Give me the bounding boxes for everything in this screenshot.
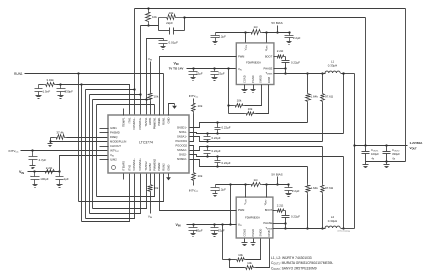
- label 0.22uF: [212, 136, 221, 140]
- wire SNS2- rail: [190, 155, 344, 158]
- svg-text:1.64k: 1.64k: [311, 95, 319, 99]
- svg-text:0.22µF: 0.22µF: [291, 60, 300, 64]
- ground 22uF bottom a: [191, 234, 196, 237]
- svg-text:PGOOD2: PGOOD2: [176, 144, 188, 148]
- labels bottom pins: [122, 158, 171, 171]
- svg-text:LTC3774: LTC3774: [139, 141, 153, 145]
- inductor L1: [325, 71, 340, 73]
- resistor 10k divider top: [146, 7, 151, 26]
- svg-text:10k: 10k: [198, 104, 203, 108]
- label 330pF: [65, 90, 74, 94]
- svg-text:10k: 10k: [237, 99, 242, 103]
- capacitor 1.5nF ITH: [35, 85, 44, 96]
- wire GND sense top rail: [135, 8, 406, 10]
- wire L2 out: [341, 228, 355, 230]
- svg-text:ILIM1: ILIM1: [110, 126, 117, 130]
- svg-text:7V TO 14V: 7V TO 14V: [169, 67, 184, 71]
- wire 5V BIAS rail bottom: [216, 183, 289, 185]
- resistor 97.6ohm ch1: [321, 72, 325, 141]
- ground PGND bottom: [251, 239, 256, 246]
- label 0.22uF: [212, 149, 221, 153]
- svg-text:CGND: CGND: [242, 229, 246, 237]
- wire loop VOSNS1+: [90, 93, 142, 213]
- label 0.22uF: [291, 215, 300, 219]
- label 3.01k: [46, 78, 54, 82]
- capacitor 22uF input b: [211, 69, 219, 78]
- svg-text:2.2Ω: 2.2Ω: [46, 166, 53, 170]
- resistor 1ohm top: [250, 30, 263, 35]
- svg-text:GND: GND: [167, 117, 171, 123]
- wire RUN loop bottom: [79, 174, 164, 202]
- ground 1.5nF: [36, 96, 42, 99]
- capacitor 2.2uF VCIN bottom: [211, 185, 220, 194]
- wire L1/L2 to VOUT: [354, 74, 356, 229]
- svg-text:10k: 10k: [154, 186, 159, 190]
- svg-text:0.33µH: 0.33µH: [328, 219, 337, 223]
- wire SW1: [286, 73, 326, 75]
- svg-text:SNSD2+: SNSD2+: [177, 157, 188, 161]
- ground PGND top: [251, 85, 256, 93]
- op-amp U2 FDMF6820A body: [236, 43, 274, 85]
- wire ITEMP1 stub: [123, 109, 125, 116]
- svg-text:0.22µF: 0.22µF: [222, 126, 231, 130]
- svg-text:HIZB2: HIZB2: [148, 163, 152, 171]
- wire SNSA2+ rail: [190, 145, 323, 150]
- ground 22uF a: [191, 78, 196, 81]
- capacitor 22uF input a: [189, 69, 198, 78]
- label INTVCC: [9, 149, 19, 154]
- wire SNSA1+ rail: [190, 137, 323, 143]
- capacitor 100uF VIN: [30, 172, 39, 185]
- label 0.22uF: [222, 161, 231, 165]
- capacitor 2.2uF 5VBIAS top: [285, 31, 294, 41]
- label L1 0.33uH: [328, 60, 337, 68]
- wire PHASE bottom: [273, 222, 287, 224]
- wire SMOD/DISB riser bottom: [222, 225, 224, 260]
- wire VIN rail bottom: [187, 223, 237, 225]
- svg-text:BOOT: BOOT: [265, 54, 273, 58]
- wire ITH loop left leg: [80, 83, 82, 221]
- svg-text:SNS2–: SNS2–: [179, 153, 188, 157]
- wire VOSNS1- drop (x=134): [134, 9, 136, 116]
- label 0.22uF: [291, 60, 300, 64]
- label 97.6ohm: [325, 186, 334, 190]
- resistor 10k feedback: [159, 15, 185, 20]
- resistor 2.2ohm VIN: [41, 170, 60, 174]
- svg-text:10k: 10k: [152, 15, 157, 19]
- label 5V BIAS bottom: [271, 173, 282, 177]
- resistor 10k SMOD2: [223, 258, 246, 262]
- labels left pins: [110, 126, 126, 162]
- wire 5V BIAS rail top: [216, 31, 290, 33]
- svg-text:5V BIAS: 5V BIAS: [271, 173, 282, 177]
- svg-text:COUT2: SANYO 2R5TPE330M9: COUT2: SANYO 2R5TPE330M9: [271, 266, 317, 271]
- svg-text:RUN1: RUN1: [162, 117, 166, 125]
- wire GND sense right drop: [405, 9, 407, 162]
- svg-text:2.2Ω: 2.2Ω: [277, 203, 284, 207]
- label 5V BIAS top: [271, 21, 282, 25]
- svg-text:0.01µF: 0.01µF: [169, 41, 179, 45]
- svg-text:DISB: DISB: [267, 77, 271, 83]
- capacitor 0.22uF BOOT top: [282, 60, 290, 69]
- svg-text:CLKOUT: CLKOUT: [110, 144, 121, 148]
- wire SNSD1+ rail: [190, 121, 308, 127]
- wire TDSNS top: [274, 69, 287, 75]
- wire feedback rail drop x=365.7: [365, 18, 367, 146]
- wire GND top pin: [169, 104, 175, 116]
- wire MODE gnd stub: [50, 142, 52, 144]
- wire INTVCC: [21, 149, 109, 151]
- label LTC3774: [139, 141, 153, 145]
- wire RUN1: [25, 72, 164, 115]
- wire ITH1 hline: [82, 85, 130, 116]
- wire divider node: [141, 25, 159, 27]
- label RUN1: [14, 72, 23, 76]
- label VIN small (HIZB2): [148, 215, 153, 220]
- capacitor 0.01uF soft-start: [159, 39, 168, 47]
- svg-text:2.2µF: 2.2µF: [292, 189, 300, 193]
- label 22uF: [196, 229, 203, 233]
- label VIN bold: [19, 170, 24, 175]
- ground 2.2uF VCIN bottom: [213, 194, 218, 197]
- wire VOUT rail: [353, 144, 407, 146]
- ground COUT1: [363, 162, 369, 168]
- label 2.2uF: [219, 35, 227, 39]
- svg-text:330µF: 330µF: [392, 152, 400, 156]
- labels U2 top pins: [244, 45, 269, 51]
- label 10k: [248, 107, 253, 111]
- label 1ohm: [254, 178, 259, 182]
- wire SMOD1: [245, 85, 262, 106]
- svg-text:1.64k: 1.64k: [311, 186, 319, 190]
- svg-text:PWM: PWM: [238, 54, 244, 58]
- wire SMOD/DISB riser top: [227, 69, 229, 114]
- label 10k: [198, 174, 203, 178]
- label FDMF6820A top: [246, 60, 261, 64]
- svg-text:TK/SS2: TK/SS2: [144, 161, 148, 171]
- svg-text:DISB: DISB: [267, 230, 271, 236]
- label 10k: [154, 95, 159, 99]
- wire SNS2- to L2 node: [342, 157, 344, 230]
- capacitor 2.2uF 5VBIAS bottom: [285, 183, 293, 193]
- svg-text:RUN1: RUN1: [14, 72, 23, 76]
- svg-text:3774 TA01a: 3774 TA01a: [337, 230, 350, 233]
- wire VOSNS feedback rail y=17: [185, 17, 366, 19]
- labels U3 bottom pins: [242, 229, 271, 237]
- resistor 10k HIZB2: [148, 174, 153, 214]
- wire GND sense bus: [366, 160, 406, 162]
- capacitor 330pF ITH: [57, 85, 66, 96]
- ground 22uF b: [212, 78, 218, 81]
- label L2 0.33uH: [328, 215, 337, 223]
- svg-text:10k: 10k: [169, 11, 174, 15]
- svg-text:PWM2: PWM2: [157, 162, 161, 171]
- svg-text:0.22µF: 0.22µF: [212, 136, 221, 140]
- label 0.01uF: [169, 41, 179, 45]
- wire ILIM1 stub: [100, 128, 109, 130]
- capacitor 22pF feedback: [159, 28, 185, 35]
- svg-text:37.4k: 37.4k: [56, 131, 64, 135]
- wire loop PWMEN: [97, 105, 155, 197]
- label figure tag: [337, 230, 350, 233]
- wire CLKOUT stub: [100, 146, 109, 148]
- svg-text:2.2µF: 2.2µF: [293, 36, 301, 40]
- svg-text:100µF: 100µF: [371, 152, 379, 156]
- svg-text:VOSNS2–: VOSNS2–: [132, 158, 136, 171]
- label 2.2uF: [219, 188, 227, 192]
- svg-text:22µF: 22µF: [196, 229, 203, 233]
- label 10k: [154, 186, 159, 190]
- label VIN bottom: [176, 223, 181, 228]
- svg-text:ITH1: ITH1: [127, 117, 131, 123]
- wire SW2: [286, 228, 326, 230]
- svg-text:2.2µF: 2.2µF: [219, 35, 227, 39]
- ground COUT2: [384, 162, 390, 168]
- wire SNSD2+ rail: [190, 160, 308, 168]
- wire TDSNS bottom: [273, 224, 287, 230]
- wire PWM2: [160, 174, 237, 211]
- label 10k: [152, 15, 157, 19]
- svg-text:22µF: 22µF: [218, 72, 225, 76]
- RC parallel right bar: [183, 16, 185, 30]
- label 22uF: [218, 229, 225, 233]
- label 1uF: [64, 177, 69, 181]
- svg-text:1.5nF: 1.5nF: [43, 90, 51, 94]
- labels U3 left pins: [238, 208, 244, 227]
- svg-text:5V BIAS: 5V BIAS: [271, 21, 282, 25]
- svg-text:22µF: 22µF: [218, 229, 225, 233]
- label VIN 7V TO 14V: [169, 62, 184, 71]
- svg-text:ITH2: ITH2: [127, 164, 131, 170]
- wire TK/SS2 loop bottom: [93, 174, 147, 209]
- svg-text:0.33µH: 0.33µH: [328, 64, 337, 68]
- labels U2 left pins: [238, 54, 244, 71]
- wire VIN input: [28, 170, 61, 172]
- ground FREQ/MODE: [48, 144, 53, 147]
- svg-text:VIN: VIN: [174, 62, 179, 67]
- wire 5VBIAS to VIN2: [230, 185, 232, 225]
- label FDMF6820A bottom: [245, 215, 260, 219]
- wire ILIM2 stub: [100, 159, 109, 161]
- ground 22uF bottom b: [212, 234, 218, 237]
- wire 5V BIAS stub top: [276, 26, 278, 34]
- svg-text:4.7µF: 4.7µF: [39, 158, 47, 162]
- svg-text:0.22µF: 0.22µF: [212, 149, 221, 153]
- svg-text:22µF: 22µF: [196, 72, 203, 76]
- wire PWM1: [160, 57, 237, 116]
- svg-text:10k: 10k: [238, 253, 243, 257]
- ground TK/SS cap: [161, 47, 166, 50]
- wire loop VOSNS1-: [86, 88, 136, 218]
- svg-text:1µF: 1µF: [64, 177, 69, 181]
- svg-text:SNSA2+: SNSA2+: [177, 148, 188, 152]
- wire VIN rail top: [187, 67, 237, 69]
- svg-text:PWMEN2: PWMEN2: [153, 158, 157, 170]
- wire VOSNS2- loop bottom: [86, 174, 135, 219]
- svg-text:VOUT: VOUT: [410, 146, 418, 151]
- wire RUN loop left leg: [78, 74, 80, 202]
- resistor 10k SMOD1: [229, 104, 245, 108]
- label 10k: [237, 99, 242, 103]
- wire PHSMD stub: [100, 132, 109, 134]
- capacitor 1uF VIN pin: [56, 172, 64, 185]
- wire VOSNS1+ drop x=140.2: [140, 26, 142, 116]
- labels U3 top pins: [243, 199, 267, 205]
- labels U3 right pins: [263, 208, 273, 230]
- ground chip bottom: [166, 176, 171, 181]
- label VIN small (HIZB1): [148, 57, 153, 62]
- wire DISB2: [256, 239, 270, 268]
- inductor L2: [325, 226, 340, 228]
- labels top pins: [122, 117, 171, 130]
- svg-text:MODE/PLLIN: MODE/PLLIN: [110, 140, 126, 144]
- svg-text:PWM: PWM: [238, 208, 244, 212]
- svg-text:PGND: PGND: [251, 75, 255, 83]
- wire VOSNS2+ loop bottom: [90, 174, 141, 214]
- resistor 2.2ohm BOOT top: [274, 55, 286, 60]
- svg-text:HIZB1: HIZB1: [148, 117, 152, 125]
- labels U2 right pins: [264, 54, 274, 75]
- label 1ohm: [254, 25, 259, 29]
- wire VIN pin riser: [60, 156, 109, 172]
- svg-text:10k: 10k: [154, 95, 159, 99]
- wire VDRV riser bottom: [266, 185, 268, 198]
- label 0.22uF: [222, 126, 231, 130]
- wire SNS1- rail: [190, 132, 344, 134]
- label 2.2ohm: [46, 166, 53, 170]
- label 10k: [238, 253, 243, 257]
- resistor 1.64k ch1: [306, 72, 311, 122]
- wire MODE/PLLIN: [49, 140, 108, 142]
- ground CGND top: [242, 85, 248, 93]
- label 2.2ohm: [277, 49, 284, 53]
- ground CGND bottom: [242, 239, 248, 246]
- capacitor 0.22uF sense2b: [215, 157, 221, 167]
- label component notes: [271, 256, 333, 271]
- wire L1 out: [341, 72, 355, 74]
- label 22uF: [218, 72, 225, 76]
- pin-1 circle: [112, 166, 116, 170]
- labels U2 bottom pins: [242, 75, 271, 83]
- label 1.64k: [311, 186, 319, 190]
- capacitor 0.22uF sense2a: [204, 147, 211, 157]
- ground 4.7uF: [30, 166, 36, 169]
- capacitor 4.7uF INTVCC: [29, 151, 38, 166]
- resistor 10k PGOOD2 pullup: [190, 146, 196, 186]
- label 2.2uF: [292, 189, 300, 193]
- op-amp U1 LTC3774 body: [108, 115, 189, 173]
- svg-text:10k: 10k: [198, 174, 203, 178]
- svg-text:PWMEN1: PWMEN1: [153, 117, 157, 129]
- resistor 1.64k ch2: [306, 167, 311, 230]
- op-amp U3 FDMF6820A body: [236, 197, 273, 238]
- svg-text:FDMF6820A: FDMF6820A: [245, 215, 260, 219]
- svg-text:SNS1–: SNS1–: [179, 130, 188, 134]
- svg-text:97.6Ω: 97.6Ω: [325, 95, 334, 99]
- resistor 10k DISB2: [230, 260, 256, 270]
- svg-text:PHSMD: PHSMD: [110, 131, 120, 135]
- wire 5V BIAS stub bottom: [276, 177, 278, 186]
- ground 2.2uF VCIN top: [213, 42, 218, 45]
- svg-text:FDMF6820A: FDMF6820A: [246, 60, 261, 64]
- wire DISB1: [256, 85, 269, 114]
- label 2.2uF: [293, 36, 301, 40]
- svg-text:GND: GND: [167, 165, 171, 171]
- svg-text:1.2V/60A: 1.2V/60A: [410, 141, 424, 145]
- svg-text:SNSA1+: SNSA1+: [177, 135, 188, 139]
- wire TK/SS1 top: [147, 39, 164, 116]
- svg-text:PGOOD1: PGOOD1: [176, 139, 188, 143]
- svg-text:SNSD1+: SNSD1+: [177, 126, 188, 130]
- capacitor 0.22uF sense1a: [215, 123, 221, 134]
- label 22uF: [196, 72, 203, 76]
- wire SNS1- to L1 node: [342, 72, 344, 133]
- svg-text:22pF: 22pF: [166, 21, 173, 25]
- ground chip top: [172, 104, 177, 109]
- label 4.7uF: [39, 158, 47, 162]
- label VOUT: [410, 141, 424, 150]
- svg-text:2.2µF: 2.2µF: [219, 188, 227, 192]
- label 1.64k: [311, 95, 319, 99]
- svg-text:0.22µF: 0.22µF: [291, 215, 300, 219]
- label INTVCC top pullup: [189, 94, 199, 99]
- svg-text:ITEMP1: ITEMP1: [122, 117, 126, 127]
- wire SMOD2: [246, 239, 261, 260]
- resistor 97.6ohm ch2: [321, 147, 325, 230]
- label 1.5nF: [43, 90, 51, 94]
- svg-text:100µF: 100µF: [40, 177, 48, 181]
- label 10k: [247, 261, 252, 265]
- capacitor 0.22uF BOOT bottom: [282, 215, 290, 224]
- wire ITH loop bottom: [82, 174, 130, 222]
- svg-text:RUN2: RUN2: [162, 163, 166, 171]
- svg-text:ITEMP2: ITEMP2: [122, 160, 126, 170]
- svg-text:CGND: CGND: [242, 75, 246, 83]
- svg-text:VIN: VIN: [176, 223, 181, 228]
- svg-text:2.2Ω: 2.2Ω: [277, 49, 284, 53]
- wire VDRV riser top: [266, 33, 268, 43]
- wire loop TK/SS: [93, 98, 148, 208]
- capacitor 22uF bottom b: [211, 225, 219, 234]
- svg-text:97.6Ω: 97.6Ω: [325, 186, 334, 190]
- resistor 3.01k ITH: [44, 83, 57, 87]
- resistor 10k PGOOD1 pullup: [190, 99, 196, 142]
- ground 2.2uF 5VBIAS bottom: [286, 194, 292, 197]
- wire PHASE top: [274, 67, 287, 69]
- svg-text:PGND: PGND: [251, 229, 255, 237]
- wire VCIN riser top: [245, 33, 247, 43]
- svg-text:PWM1: PWM1: [157, 117, 161, 126]
- ground 2.2uF 5VBIAS top: [287, 42, 292, 45]
- svg-text:COUT1: MURATA GRM31CR60J107ME3: COUT1: MURATA GRM31CR60J107ME39L: [271, 261, 333, 266]
- wire PWMEN2 loop bottom: [97, 174, 155, 197]
- ground 1uF: [57, 185, 63, 188]
- resistor 1ohm bottom: [250, 183, 263, 187]
- svg-text:BOOT: BOOT: [265, 208, 273, 212]
- svg-text:10k: 10k: [247, 261, 252, 265]
- label 10k: [169, 11, 174, 15]
- svg-text:VOSNS1+: VOSNS1+: [138, 117, 142, 130]
- capacitor COUT2: [383, 146, 391, 162]
- svg-text:VOSNS2+: VOSNS2+: [138, 158, 142, 171]
- svg-text:VIN: VIN: [19, 170, 24, 175]
- ground 100uF: [33, 185, 38, 188]
- svg-text:3.01k: 3.01k: [46, 78, 54, 82]
- svg-text:TK/SS1: TK/SS1: [144, 117, 148, 127]
- wire GND bottom pin: [168, 174, 170, 176]
- ground 330pF: [58, 96, 64, 99]
- capacitor 0.22uF sense1b: [204, 134, 211, 142]
